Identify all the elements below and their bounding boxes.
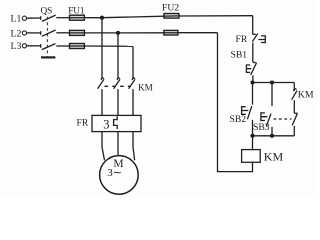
- svg-text:KM: KM: [298, 90, 314, 101]
- svg-text:FU2: FU2: [162, 2, 179, 13]
- pushbutton SB1 (stop, NC): [231, 49, 257, 75]
- contact KM auxiliary (NO): [292, 89, 314, 101]
- node L1: [11, 14, 27, 25]
- wire SB3 linkage dashed: [274, 118, 292, 120]
- svg-text:3: 3: [103, 118, 109, 132]
- wire L1 to QS: [27, 17, 41, 19]
- wire phase drop 3: [132, 46, 134, 79]
- node dot rail1 left: [250, 80, 254, 84]
- node L2: [11, 28, 27, 39]
- wire coil return: [218, 33, 253, 172]
- coil KM: [242, 150, 284, 164]
- node dot rail2 left: [250, 134, 254, 138]
- wire branch KM upper: [293, 83, 295, 92]
- contact SB3 NC: [292, 113, 297, 125]
- wire phase drop 1: [101, 18, 103, 79]
- switch QS: [41, 6, 56, 58]
- wire QS to FU1 row3: [56, 45, 69, 47]
- wire branch SB3 upper: [271, 83, 273, 107]
- wire between aux and SB3 NC: [293, 100, 295, 113]
- node dot rail2 mid: [270, 134, 274, 138]
- wire KM to FR box 3: [132, 89, 134, 115]
- node junction L1 dot: [100, 16, 104, 20]
- wire FR box to motor 1: [102, 132, 105, 161]
- wire FR to SB1: [252, 43, 254, 63]
- svg-text:L3: L3: [11, 41, 22, 52]
- wire FR box to motor 2: [117, 132, 119, 156]
- wire L3 to QS: [27, 45, 41, 47]
- fuse FU2: [162, 2, 179, 35]
- fuse FU1: [68, 6, 85, 49]
- wire L2 bus: [84, 32, 163, 34]
- svg-text:FR: FR: [236, 34, 248, 45]
- wire L1 bus to control corner: [84, 16, 252, 18]
- thermal relay contact FR: [236, 34, 266, 46]
- wire bottom rail: [252, 135, 294, 137]
- thermal relay FR heater box: [77, 115, 142, 131]
- wire KM to FR box 2: [117, 89, 119, 115]
- wire branch SB3 lower: [271, 127, 273, 136]
- motor M: [100, 156, 139, 195]
- svg-text:KM: KM: [264, 150, 284, 164]
- wire L2 to QS: [27, 32, 41, 34]
- wire QS to FU1 row1: [56, 17, 69, 19]
- wire KM to FR box 1: [101, 89, 103, 115]
- wire FR box to motor 3: [133, 132, 135, 161]
- wire rail to coil: [252, 136, 254, 150]
- node junction L2 dot: [116, 31, 120, 35]
- wire L3 bus: [84, 45, 133, 47]
- svg-text:FR: FR: [77, 118, 89, 129]
- pushbutton SB3 (jog, NO): [253, 113, 271, 133]
- wire branch SB2 lower: [252, 120, 254, 136]
- node dot rail1 mid: [270, 80, 274, 84]
- wire branch SB2 upper: [252, 83, 254, 105]
- wire branch KM lower: [293, 126, 295, 136]
- svg-text:QS: QS: [41, 6, 53, 16]
- contactor main contacts KM: [98, 78, 153, 92]
- wire SB1 to rail: [252, 75, 254, 82]
- svg-text:SB1: SB1: [231, 49, 248, 60]
- pushbutton SB2 (start, NO): [230, 106, 252, 125]
- wire FU2 lower to return corner: [178, 32, 218, 34]
- node L3: [11, 41, 27, 52]
- svg-text:3∼: 3∼: [107, 167, 122, 179]
- svg-text:L1: L1: [11, 14, 22, 25]
- wire control vertical top: [252, 16, 254, 35]
- svg-text:L2: L2: [11, 28, 22, 39]
- svg-text:KM: KM: [138, 82, 153, 92]
- wire phase drop 2: [117, 33, 119, 79]
- wire QS to FU1 row2: [56, 32, 69, 34]
- svg-text:FU1: FU1: [68, 6, 85, 16]
- wire top rail of branches: [252, 82, 294, 84]
- svg-text:SB2: SB2: [230, 114, 247, 125]
